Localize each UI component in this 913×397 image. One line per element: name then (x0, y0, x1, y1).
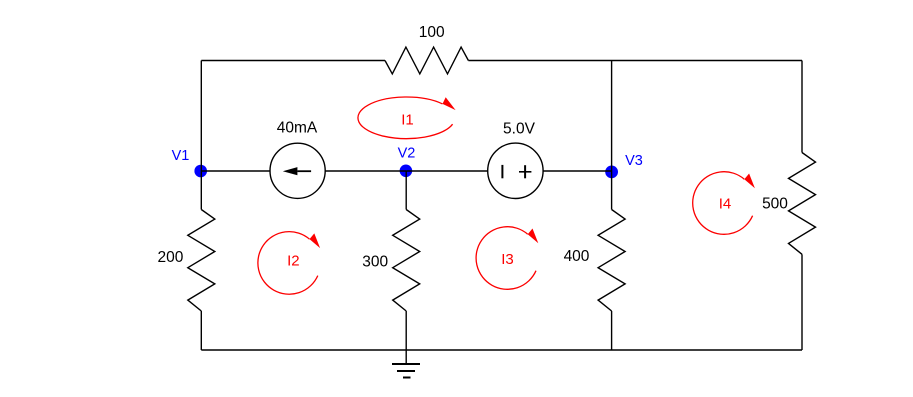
wire V3 to 400 (611, 171, 613, 210)
wire V1 to current source (201, 170, 270, 172)
svg-text:500: 500 (762, 195, 788, 212)
svg-text:I4: I4 (719, 196, 732, 213)
wire current source to V2 (325, 170, 406, 172)
svg-text:40mA: 40mA (277, 120, 318, 137)
wire top left segment (201, 60, 385, 62)
mesh current loop I3 (476, 227, 536, 290)
resistor R 400 (598, 210, 625, 312)
voltage source V 5.0V circle (488, 143, 543, 198)
wire V2 to 300 (405, 171, 407, 210)
node V3 (605, 166, 618, 179)
resistor R 500 (789, 153, 816, 255)
voltage source plus (524, 165, 526, 178)
wire bottom (201, 349, 802, 351)
svg-text:300: 300 (362, 254, 388, 271)
svg-text:200: 200 (157, 249, 183, 266)
svg-text:I2: I2 (287, 253, 300, 270)
svg-text:I1: I1 (401, 112, 414, 129)
wire 200 to bottom (200, 311, 202, 350)
svg-text:I3: I3 (501, 251, 514, 268)
resistor R 300 (393, 210, 420, 312)
wire V1 to 200 (200, 171, 202, 210)
svg-text:400: 400 (564, 248, 590, 265)
svg-text:V1: V1 (172, 148, 190, 164)
current source arrow (297, 170, 311, 172)
node V1 (194, 165, 207, 178)
resistor R 100 (385, 47, 468, 74)
mesh current loop I2 (258, 232, 318, 295)
current source U1 40mA circle (270, 143, 325, 198)
mesh current loop I1 (358, 97, 453, 139)
mesh current loop I4 (693, 172, 753, 235)
resistor R 200 (188, 210, 215, 312)
svg-text:V3: V3 (625, 153, 643, 169)
node V2 (400, 165, 413, 178)
wire 300 to bottom (405, 311, 407, 350)
wire right vertical top (801, 61, 803, 153)
svg-text:5.0V: 5.0V (503, 121, 536, 138)
wire top-left vertical (200, 61, 202, 172)
wire voltage source to V3 (543, 170, 612, 172)
svg-text:V2: V2 (398, 146, 416, 162)
voltage source minus bar (501, 165, 503, 178)
wire top right segment (468, 60, 802, 62)
wire V3 top vertical (611, 61, 613, 172)
svg-text:100: 100 (419, 24, 445, 41)
wire right vertical bottom (801, 254, 803, 350)
wire 400 to bottom (611, 311, 613, 350)
wire V2 to voltage source (406, 170, 488, 172)
ground (392, 363, 420, 365)
wire bottom to ground (405, 350, 407, 364)
